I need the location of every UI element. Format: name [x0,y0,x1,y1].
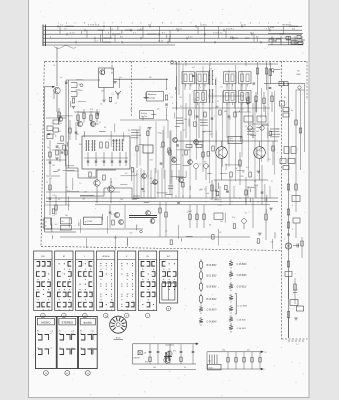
svg-text:MONO: MONO [41,320,51,324]
svg-text:a: a [78,175,79,177]
svg-text:8n2: 8n2 [145,362,148,364]
svg-text:C 06 806/: C 06 806/ [237,264,247,266]
svg-text:15: 15 [79,183,81,185]
svg-text:5: 5 [70,219,71,221]
svg-text:30: 30 [284,97,286,99]
svg-text:2: 2 [75,22,76,24]
svg-text:12: 12 [175,92,177,94]
svg-text:3: 3 [103,22,104,24]
svg-text:C6: C6 [149,77,151,79]
svg-text:2: 2 [259,22,260,24]
svg-text:1k: 1k [90,196,92,198]
svg-text:6,8: 6,8 [229,118,231,120]
svg-text:4n7: 4n7 [207,193,210,195]
svg-text:2,2: 2,2 [245,126,247,128]
svg-text:4,7: 4,7 [160,147,163,149]
svg-text:15k: 15k [120,199,123,201]
svg-text:9: 9 [172,103,173,105]
svg-text:5,5: 5,5 [180,106,183,108]
svg-text:56k: 56k [224,111,227,113]
svg-text:4u: 4u [58,199,60,201]
svg-text:5: 5 [181,22,182,24]
svg-text:6: 6 [240,22,241,24]
svg-text:9: 9 [190,22,191,24]
svg-text:10k: 10k [270,242,273,244]
svg-text:47n: 47n [173,351,176,353]
svg-text:5 10 81: 5 10 81 [268,27,274,29]
svg-text:3n3: 3n3 [256,131,259,133]
svg-text:10k: 10k [101,90,104,92]
svg-text:C 01 809/: C 01 809/ [238,305,248,307]
svg-text:a1: a1 [45,221,47,223]
svg-text:6 7 8 9 10 11: 6 7 8 9 10 11 [88,24,100,26]
svg-text:3n3: 3n3 [114,237,117,239]
svg-text:470: 470 [90,109,93,111]
svg-text:7k5: 7k5 [128,130,131,132]
svg-text:0,1: 0,1 [53,215,55,217]
svg-text:12: 12 [199,120,201,122]
svg-text:x1: x1 [60,123,62,125]
svg-text:7: 7 [284,239,285,241]
svg-text:B510: B510 [209,368,213,370]
svg-text:a: a [96,159,97,161]
svg-text:12: 12 [187,212,189,214]
svg-text:8,2: 8,2 [194,99,196,101]
svg-text:8,2: 8,2 [125,173,127,175]
svg-text:220: 220 [241,176,244,178]
svg-text:56: 56 [100,104,102,106]
svg-text:1n5: 1n5 [209,68,212,70]
svg-text:220: 220 [129,233,132,235]
svg-text:2,2: 2,2 [115,103,117,105]
svg-text:33k: 33k [259,151,262,153]
svg-text:3n3: 3n3 [150,159,153,161]
svg-text:a 1: a 1 [50,347,52,349]
svg-text:8,2: 8,2 [210,134,213,136]
svg-text:C 09 811/: C 09 811/ [237,287,247,289]
svg-text:7: 7 [212,22,213,24]
svg-text:12: 12 [217,101,219,103]
svg-text:4n7: 4n7 [247,350,250,352]
svg-text:14 12: 14 12 [158,40,164,42]
svg-text:8,2: 8,2 [256,97,258,99]
svg-text:8: 8 [250,22,251,24]
svg-text:10k: 10k [65,215,68,217]
svg-text:9: 9 [112,22,113,24]
svg-text:1 5 8 9 4 1: 1 5 8 9 4 1 [213,32,223,34]
svg-text:1n5: 1n5 [157,108,160,110]
svg-text:Bx: Bx [298,71,300,73]
svg-text:M: M [63,256,65,258]
svg-text:56: 56 [221,87,223,89]
svg-text:4x: 4x [291,110,293,112]
svg-text:8,2: 8,2 [111,214,113,216]
svg-text:C 04 804/: C 04 804/ [207,321,217,323]
svg-text:7k5: 7k5 [204,162,207,164]
svg-text:1: 1 [58,22,59,24]
svg-text:0,1: 0,1 [165,231,167,233]
svg-text:100: 100 [184,119,187,121]
svg-text:1: 1 [265,369,266,371]
svg-text:47k: 47k [144,353,147,355]
svg-text:56: 56 [160,133,162,135]
svg-text:3: 3 [171,22,172,24]
svg-text:räumlich.: räumlich. [83,321,93,324]
svg-text:C 06 807/: C 06 807/ [207,310,217,312]
svg-text:C 06 801/: C 06 801/ [237,320,247,322]
svg-text:2006: 2006 [297,74,301,76]
svg-text:ul 75/05: ul 75/05 [85,221,93,223]
svg-text:b2: b2 [45,226,47,228]
svg-text:FM: FM [41,256,44,258]
svg-text:x: x [166,115,167,117]
svg-text:0,1: 0,1 [166,107,168,109]
svg-text:6,8: 6,8 [219,232,221,234]
svg-text:3n3: 3n3 [230,138,233,140]
svg-text:3n3: 3n3 [55,224,58,226]
svg-text:6,8: 6,8 [53,195,55,197]
svg-text:100: 100 [79,144,82,146]
svg-text:2n2: 2n2 [58,131,61,133]
svg-text:12 31 5: 12 31 5 [200,24,208,26]
svg-text:3: 3 [278,22,279,24]
svg-text:STEREO: STEREO [62,320,74,324]
svg-text:2p: 2p [47,147,49,149]
svg-text:12: 12 [58,148,60,150]
svg-text:BY-5: BY-5 [116,337,121,339]
svg-text:4n7: 4n7 [93,176,96,178]
svg-text:100: 100 [202,132,205,134]
svg-text:47: 47 [66,187,68,189]
svg-text:3 6 21: 3 6 21 [176,28,182,30]
svg-text:100: 100 [220,221,223,223]
svg-text:220: 220 [80,112,83,114]
svg-text:a 1: a 1 [50,333,52,335]
svg-text:10k: 10k [215,107,218,109]
svg-text:15: 15 [199,164,201,166]
svg-text:470: 470 [173,160,176,162]
svg-text:1k: 1k [252,137,254,139]
svg-text:47: 47 [204,189,206,191]
svg-text:B 09 805/: B 09 805/ [207,265,217,267]
svg-text:0,1: 0,1 [245,212,247,214]
svg-text:a: a [176,176,177,178]
svg-text:B 01 805/: B 01 805/ [207,275,217,277]
svg-text:27p: 27p [222,350,225,352]
svg-text:2: 2 [200,22,201,24]
svg-text:1: 1 [151,22,152,24]
svg-text:22: 22 [99,122,101,124]
svg-text:0,1: 0,1 [110,182,112,184]
svg-text:100: 100 [179,97,182,99]
svg-text:DecTas: DecTas [141,116,147,118]
svg-text:8: 8 [162,22,163,24]
svg-text:7: 7 [289,22,290,24]
svg-text:z: z [200,101,201,103]
svg-text:B 09 806/: B 09 806/ [207,299,217,301]
svg-text:L.MONO: L.MONO [133,357,141,359]
svg-text:4n7: 4n7 [241,109,244,111]
svg-text:0,5: 0,5 [246,167,249,169]
svg-text:33: 33 [104,127,106,129]
svg-text:1n5: 1n5 [261,155,264,157]
svg-text:6: 6 [140,22,141,24]
svg-text:56: 56 [53,65,55,67]
svg-text:12: 12 [265,352,267,354]
svg-text:4x: 4x [62,221,64,223]
svg-text:C 06 808/: C 06 808/ [237,275,247,277]
svg-text:2,2: 2,2 [171,97,173,99]
svg-text:5: 5 [268,22,269,24]
svg-text:C 06 802/: C 06 802/ [237,328,247,330]
svg-text:12: 12 [209,109,211,111]
svg-text:1n5: 1n5 [207,166,210,168]
svg-text:12k: 12k [208,361,211,363]
svg-text:6,8: 6,8 [209,225,211,227]
svg-text:10k: 10k [153,367,156,369]
svg-text:3n3: 3n3 [80,90,83,92]
svg-text:470: 470 [199,189,202,191]
svg-text:1n: 1n [60,77,62,79]
svg-text:5: 5 [95,22,96,24]
svg-text:22k: 22k [76,134,79,136]
svg-text:UKW-St: UKW-St [102,255,110,258]
svg-text:10k: 10k [82,198,85,200]
svg-text:4n7: 4n7 [192,67,195,69]
svg-text:2,2: 2,2 [49,178,51,180]
svg-text:12: 12 [271,181,273,183]
svg-text:1: 1 [229,22,230,24]
svg-text:6,8: 6,8 [182,130,184,132]
svg-text:2: 2 [292,229,293,231]
svg-text:9 6 8 9 1: 9 6 8 9 1 [226,28,235,30]
svg-text:2,2: 2,2 [268,159,271,161]
svg-text:7k5: 7k5 [53,134,56,136]
svg-text:1k: 1k [184,367,186,369]
svg-text:47u: 47u [232,217,235,219]
svg-text:470: 470 [150,178,153,180]
svg-text:10 41: 10 41 [241,24,247,26]
svg-text:47: 47 [110,102,112,104]
svg-text:22: 22 [49,188,51,190]
svg-text:1n5: 1n5 [276,128,279,130]
svg-text:2: 2 [132,22,133,24]
svg-text:7: 7 [121,22,122,24]
svg-text:4: 4 [66,22,67,24]
svg-text:B 09 806/: B 09 806/ [207,287,217,289]
svg-text:4n7: 4n7 [79,84,82,86]
svg-text:100: 100 [247,97,250,99]
svg-text:0,1: 0,1 [112,94,114,96]
svg-text:5: 5 [292,205,293,207]
svg-text:8: 8 [84,22,85,24]
svg-text:220: 220 [142,191,145,193]
svg-text:6,8: 6,8 [242,172,244,174]
svg-text:1k: 1k [46,182,48,184]
svg-text:Abstimm-: Abstimm- [148,93,157,96]
svg-text:u1: u1 [130,109,132,111]
svg-text:Ruf(an): Ruf(an) [141,113,148,115]
svg-text:4: 4 [221,22,222,24]
svg-text:anzeige: anzeige [148,98,156,100]
